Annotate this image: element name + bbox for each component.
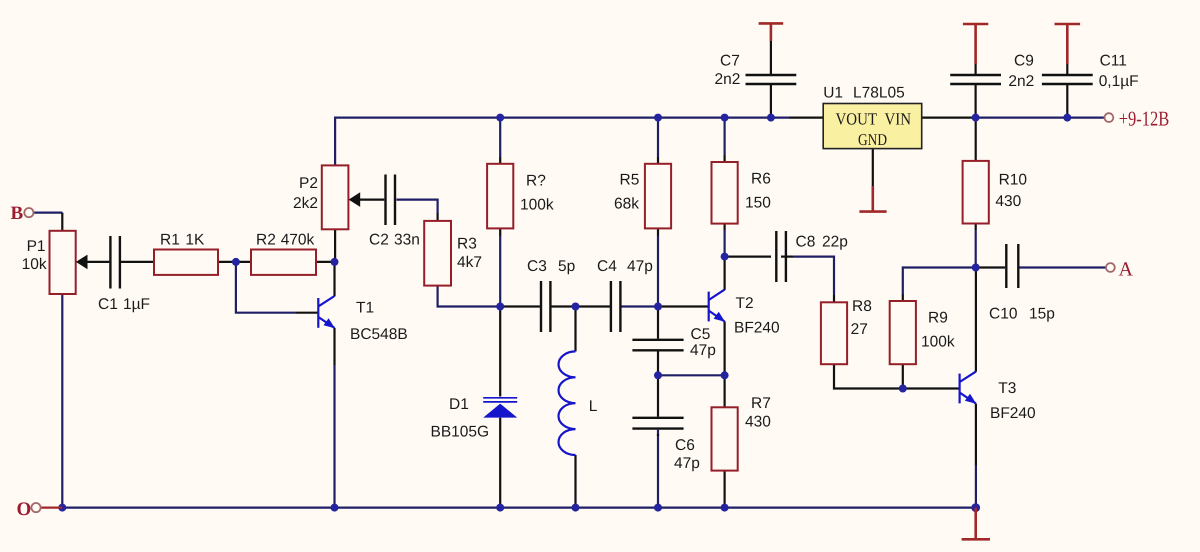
svg-text:R6: R6: [751, 171, 771, 188]
svg-text:470k: 470k: [281, 231, 315, 248]
svg-text:T2: T2: [736, 295, 754, 312]
svg-text:100k: 100k: [921, 334, 955, 351]
svg-text:L78L05: L78L05: [853, 85, 905, 102]
svg-text:BB105G: BB105G: [431, 424, 490, 441]
svg-text:10k: 10k: [22, 256, 47, 273]
svg-text:R8: R8: [852, 298, 872, 315]
svg-text:C4: C4: [597, 258, 617, 275]
svg-text:2n2: 2n2: [715, 71, 741, 88]
svg-text:47p: 47p: [690, 342, 716, 359]
svg-text:1K: 1K: [185, 231, 205, 248]
svg-text:C5: C5: [691, 326, 711, 343]
svg-text:P2: P2: [299, 175, 318, 192]
svg-text:U1: U1: [823, 85, 843, 102]
svg-text:BF240: BF240: [734, 320, 780, 337]
svg-text:2n2: 2n2: [1008, 73, 1034, 90]
svg-text:B: B: [11, 203, 24, 224]
svg-text:VOUT VIN: VOUT VIN: [836, 110, 912, 129]
svg-text:C10: C10: [989, 306, 1018, 323]
svg-text:R1: R1: [160, 231, 180, 248]
svg-text:BF240: BF240: [990, 405, 1036, 422]
svg-text:GND: GND: [858, 130, 887, 149]
svg-text:22p: 22p: [822, 234, 848, 251]
svg-text:L: L: [589, 398, 598, 415]
svg-text:C9: C9: [1014, 52, 1034, 69]
svg-text:R7: R7: [751, 395, 771, 412]
svg-text:4k7: 4k7: [457, 254, 482, 271]
svg-text:C7: C7: [720, 52, 740, 69]
svg-text:15p: 15p: [1029, 306, 1055, 323]
svg-text:150: 150: [745, 195, 771, 212]
svg-text:T3: T3: [998, 380, 1016, 397]
svg-text:0,1µF: 0,1µF: [1099, 73, 1139, 90]
svg-text:C2: C2: [369, 231, 389, 248]
svg-text:5p: 5p: [558, 258, 575, 275]
svg-text:+9-12B: +9-12B: [1119, 107, 1170, 131]
svg-text:C6: C6: [675, 437, 695, 454]
svg-text:1µF: 1µF: [123, 296, 150, 313]
svg-text:68k: 68k: [614, 196, 639, 213]
svg-text:C11: C11: [1100, 52, 1127, 69]
svg-text:BC548B: BC548B: [350, 326, 408, 343]
svg-text:R3: R3: [457, 235, 477, 252]
svg-text:A: A: [1119, 259, 1134, 281]
svg-text:P1: P1: [27, 238, 46, 255]
svg-text:2k2: 2k2: [293, 195, 318, 212]
svg-text:R9: R9: [928, 310, 948, 327]
svg-text:C1: C1: [98, 296, 118, 313]
svg-text:R5: R5: [620, 172, 640, 189]
svg-text:R?: R?: [526, 173, 546, 190]
svg-text:R10: R10: [999, 171, 1028, 188]
svg-text:47p: 47p: [674, 455, 700, 472]
svg-text:O: O: [17, 499, 32, 520]
svg-text:R2: R2: [256, 231, 276, 248]
svg-text:C8: C8: [796, 234, 816, 251]
svg-text:D1: D1: [449, 396, 469, 413]
svg-text:100k: 100k: [520, 197, 554, 214]
svg-text:C3: C3: [527, 258, 547, 275]
svg-text:47p: 47p: [627, 258, 653, 275]
svg-text:27: 27: [851, 321, 868, 338]
svg-text:430: 430: [995, 193, 1021, 210]
svg-text:T1: T1: [356, 300, 374, 317]
svg-text:430: 430: [745, 414, 771, 431]
svg-text:33n: 33n: [394, 231, 420, 248]
